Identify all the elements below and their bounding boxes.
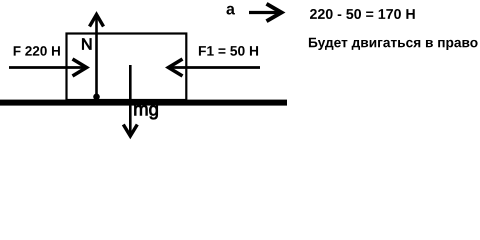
arrow F1 = 50 H (opposing force, leftward into box) (169, 59, 261, 76)
arrow F 220 H (applied force, rightward into box) (9, 59, 87, 76)
label F1 = 50 H (199, 46, 258, 56)
arrow mg (weight, downward through ground) (123, 65, 137, 136)
box (block resting on ground) (67, 34, 187, 101)
ground line (0, 100, 287, 106)
label F 220 H (14, 46, 60, 56)
equation 220 - 50 = 170 H (310, 9, 415, 19)
arrow N (normal force, upward) (90, 15, 104, 98)
label mg (134, 105, 157, 119)
node dot (N force application point on ground) (93, 94, 100, 101)
arrow a (acceleration direction, rightward) (249, 4, 282, 21)
answer text: will move to the right (309, 38, 478, 50)
label a (acceleration) (226, 6, 235, 15)
label N (82, 38, 91, 49)
